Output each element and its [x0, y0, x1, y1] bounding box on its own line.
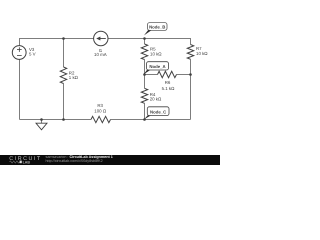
svg-text:10 kΩ: 10 kΩ: [150, 52, 162, 57]
svg-text:R3: R3: [97, 103, 103, 108]
svg-text:Node_A: Node_A: [149, 64, 165, 69]
svg-text:Node_C: Node_C: [150, 109, 166, 114]
svg-text:10 mA: 10 mA: [94, 52, 107, 57]
svg-text:5 V: 5 V: [29, 52, 36, 57]
svg-text:Node_B: Node_B: [149, 25, 165, 30]
svg-text:http://circuitlab.com/c/56dy8s: http://circuitlab.com/c/56dy8sb8fK2: [46, 159, 103, 163]
svg-text:1 kΩ: 1 kΩ: [69, 75, 79, 80]
svg-text:R6: R6: [165, 80, 171, 85]
svg-text:LAB: LAB: [23, 160, 31, 164]
svg-text:10 kΩ: 10 kΩ: [196, 51, 208, 56]
svg-text:5.1 kΩ: 5.1 kΩ: [162, 86, 176, 91]
svg-text:20 kΩ: 20 kΩ: [150, 96, 162, 101]
svg-text:100 Ω: 100 Ω: [94, 109, 107, 114]
